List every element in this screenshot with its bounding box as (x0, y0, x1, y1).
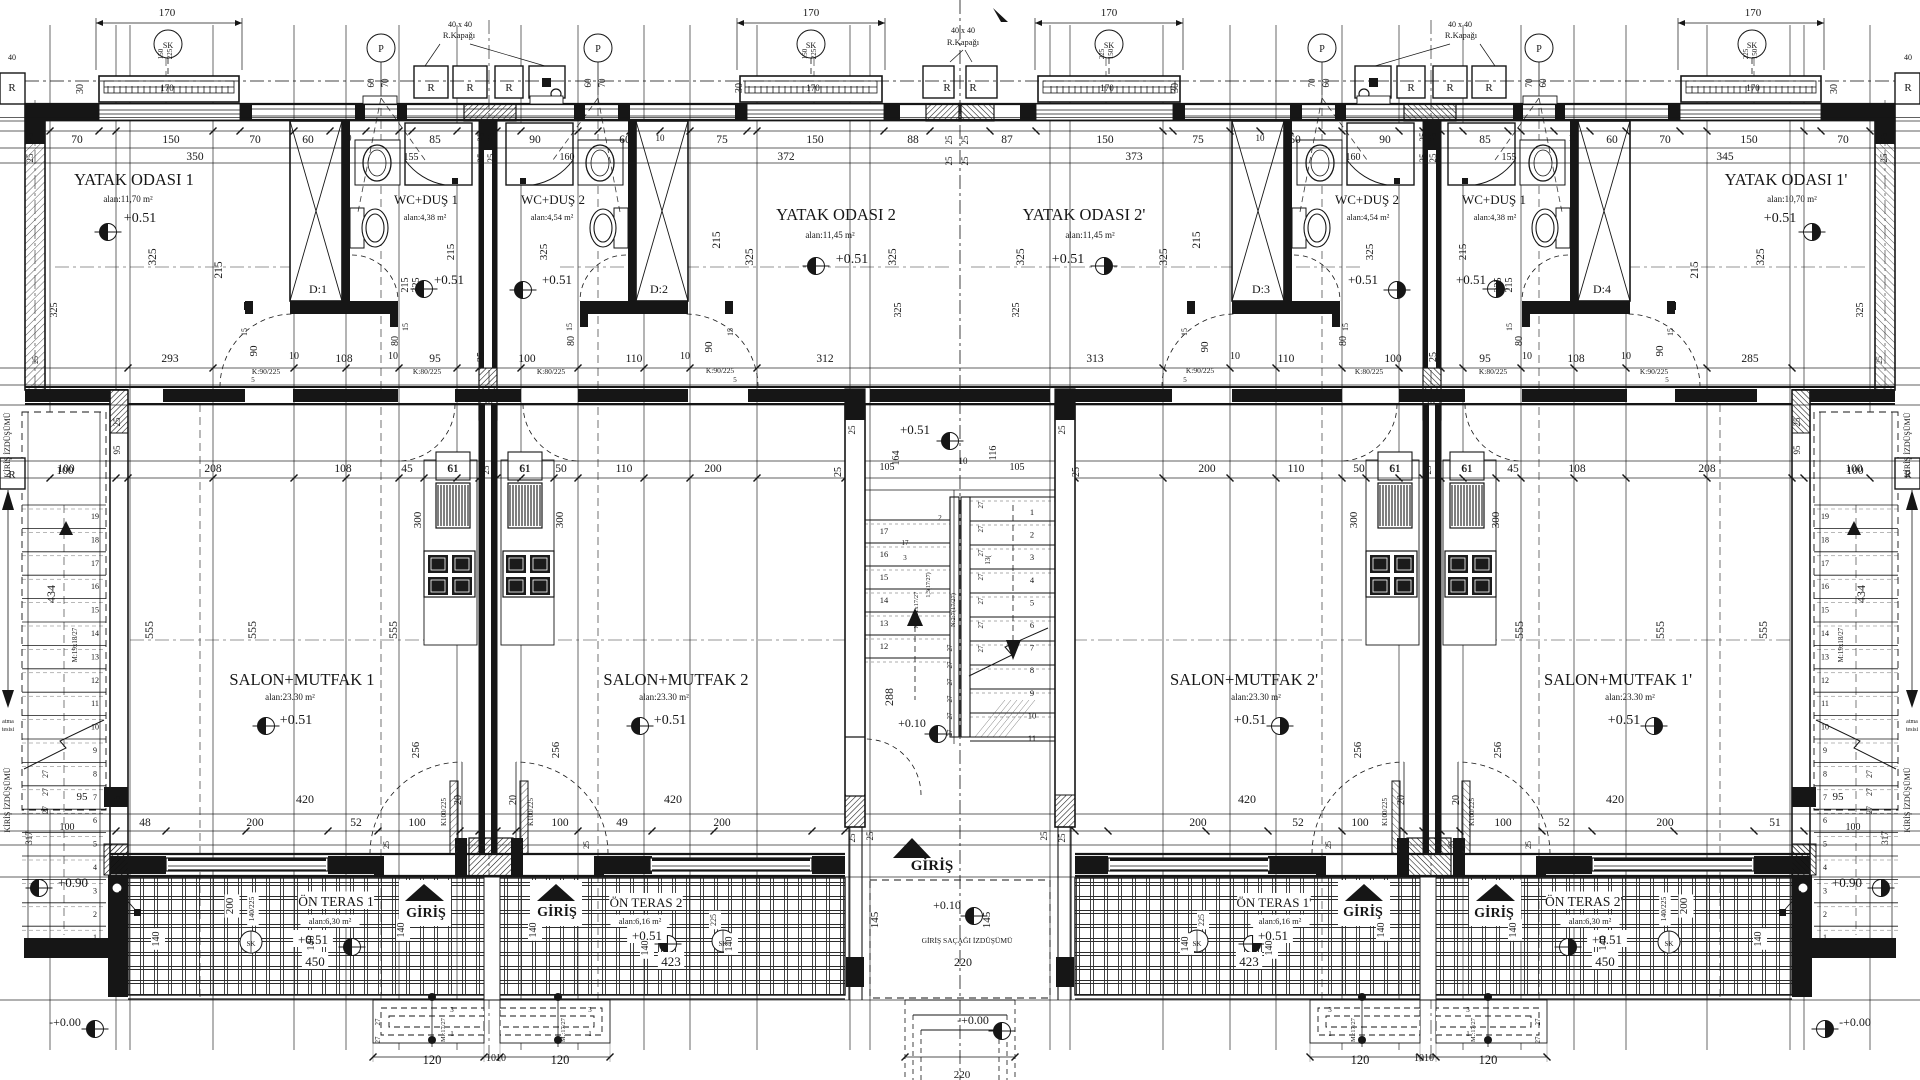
construction grid verticals (49, 25, 51, 1050)
svg-text:25: 25 (833, 467, 844, 477)
svg-text:155: 155 (404, 152, 419, 163)
svg-text:30: 30 (1170, 83, 1181, 93)
svg-text:108: 108 (334, 463, 352, 475)
svg-text:K100/225: K100/225 (1468, 798, 1476, 827)
svg-text:27: 27 (977, 645, 985, 653)
window sill (99, 76, 239, 102)
svg-text:25: 25 (31, 356, 40, 364)
svg-text:alan:23.30 m²: alan:23.30 m² (1605, 692, 1655, 702)
svg-text:alan:11,45 m²: alan:11,45 m² (805, 230, 855, 240)
svg-text:70: 70 (380, 78, 390, 88)
svg-text:60: 60 (583, 78, 593, 88)
svg-text:-+0.00: -+0.00 (1839, 1015, 1871, 1029)
svg-text:220: 220 (954, 955, 972, 969)
svg-text:12: 12 (880, 641, 889, 651)
svg-text:3: 3 (1328, 1006, 1332, 1014)
svg-text:100: 100 (1384, 353, 1402, 365)
svg-text:ÖN TERAS 1: ÖN TERAS 1 (298, 894, 374, 909)
svg-text:tesisi: tesisi (2, 727, 15, 733)
svg-text:19: 19 (1821, 512, 1829, 521)
P vent circle 2 (584, 34, 612, 62)
svg-text:16: 16 (880, 549, 889, 559)
level marker salon2 (627, 718, 654, 735)
svg-text:27: 27 (946, 661, 954, 669)
svg-text:155: 155 (1502, 152, 1517, 163)
svg-text:25: 25 (25, 132, 35, 142)
svg-text:9: 9 (93, 746, 97, 755)
svg-text:150: 150 (162, 134, 180, 146)
svg-text:YATAK ODASI 1: YATAK ODASI 1 (74, 170, 194, 189)
svg-text:256: 256 (1492, 741, 1504, 758)
svg-text:40 x 40: 40 x 40 (448, 20, 472, 29)
svg-text:317: 317 (1880, 831, 1890, 845)
svg-text:70: 70 (1837, 134, 1849, 146)
P vent circle 1 (367, 34, 395, 62)
svg-text:116: 116 (988, 446, 999, 461)
svg-text:60: 60 (302, 134, 314, 146)
svg-text:GİRİŞ: GİRİŞ (1343, 903, 1383, 920)
svg-text:27: 27 (1534, 1036, 1542, 1044)
svg-text:KİRİŞ İZDÜŞÜMÜ: KİRİŞ İZDÜŞÜMÜ (3, 767, 12, 832)
porch bottom dim (905, 1056, 1015, 1058)
level marker 000 left (82, 1021, 109, 1038)
svg-text:10: 10 (680, 351, 690, 362)
svg-text:61: 61 (520, 464, 530, 475)
svg-text:SK: SK (1665, 940, 1674, 948)
svg-text:225: 225 (1098, 48, 1106, 59)
svg-text:18: 18 (1821, 535, 1829, 544)
61 label boxes (436, 452, 470, 480)
svg-text:25: 25 (486, 132, 496, 142)
svg-text:25: 25 (1039, 831, 1049, 841)
svg-text:313: 313 (1086, 353, 1104, 365)
svg-text:110: 110 (616, 463, 633, 475)
svg-text:15: 15 (1505, 323, 1514, 331)
svg-text:GİRİŞ: GİRİŞ (406, 904, 446, 921)
stove unit2 (503, 551, 554, 597)
svg-text:140: 140 (1508, 923, 1519, 938)
svg-text:49: 49 (616, 817, 628, 829)
svg-text:6: 6 (1823, 816, 1827, 825)
WC door arcs (352, 255, 398, 301)
SK roof drain circle (797, 30, 825, 58)
svg-text:9: 9 (1030, 688, 1034, 698)
svg-text:27: 27 (1534, 1018, 1542, 1026)
svg-text:25: 25 (847, 425, 857, 435)
main wall bedroom/salon y390 (25, 386, 962, 388)
svg-text:K:90/225: K:90/225 (1186, 366, 1215, 375)
svg-text:27: 27 (977, 597, 985, 605)
svg-text:110: 110 (626, 353, 643, 365)
svg-text:300: 300 (1348, 511, 1360, 528)
svg-text:25: 25 (112, 795, 122, 805)
wardrobe unit2 (636, 121, 688, 301)
door arc D2 (685, 314, 758, 387)
svg-text:15: 15 (1180, 328, 1189, 336)
svg-text:60: 60 (1538, 78, 1548, 88)
svg-text:10: 10 (1028, 710, 1037, 720)
svg-text:alan:6,16 m²: alan:6,16 m² (619, 916, 662, 926)
porch steps (905, 999, 1015, 1001)
svg-text:17: 17 (902, 539, 910, 547)
svg-text:345: 345 (1716, 151, 1734, 163)
svg-text:95: 95 (1833, 791, 1845, 803)
svg-text:6: 6 (93, 816, 97, 825)
stair wall column at main wall (845, 389, 865, 420)
svg-text:61: 61 (1462, 464, 1472, 475)
door arc K80 unit1 (398, 404, 455, 461)
hidden dashed verticals (199, 404, 201, 1000)
svg-text:R: R (969, 82, 977, 94)
SK circle terrace unit2 (712, 930, 734, 952)
svg-text:25: 25 (1428, 132, 1438, 142)
svg-text:+0.90: +0.90 (1832, 875, 1862, 890)
svg-text:20: 20 (508, 795, 519, 805)
svg-text:225: 225 (709, 914, 718, 926)
svg-text:alan:11,45 m²: alan:11,45 m² (1065, 230, 1115, 240)
nook jamb unit1 (245, 301, 253, 314)
svg-text:215: 215 (445, 243, 457, 260)
svg-text:95: 95 (77, 791, 89, 803)
stair down arrow (1012, 505, 1014, 648)
svg-text:M:19x18/27: M:19x18/27 (1837, 627, 1845, 662)
svg-text:100: 100 (1846, 822, 1861, 833)
svg-text:atma: atma (1906, 719, 1918, 725)
svg-text:alan:4,38 m²: alan:4,38 m² (404, 212, 447, 222)
svg-text:1: 1 (588, 1030, 592, 1038)
svg-text:45: 45 (401, 463, 413, 475)
svg-text:215: 215 (1457, 243, 1469, 260)
svg-text:45: 45 (1507, 463, 1519, 475)
svg-text:10: 10 (1230, 351, 1240, 362)
svg-text:325: 325 (887, 248, 899, 266)
stove unit1 (424, 551, 475, 597)
svg-text:11: 11 (1821, 699, 1829, 708)
svg-text:85: 85 (1479, 134, 1491, 146)
WC wall unit2 (628, 121, 636, 301)
window inner lines (99, 109, 240, 111)
svg-text:30: 30 (1829, 84, 1840, 94)
svg-text:25: 25 (1324, 841, 1333, 849)
svg-text:108: 108 (1568, 463, 1586, 475)
svg-text:1,3(17/27): 1,3(17/27) (925, 572, 932, 597)
svg-text:8: 8 (1823, 769, 1827, 778)
svg-text:60: 60 (366, 78, 376, 88)
svg-text:215: 215 (400, 278, 411, 293)
svg-text:40: 40 (8, 53, 16, 62)
svg-text:100: 100 (1846, 465, 1864, 477)
svg-text:140: 140 (528, 923, 539, 938)
svg-text:27: 27 (977, 621, 985, 629)
svg-text:R.Kapağı: R.Kapağı (443, 30, 476, 40)
svg-text:61: 61 (1390, 464, 1400, 475)
svg-text:10: 10 (343, 133, 353, 143)
SK roof drain circle (154, 30, 182, 58)
small sill windows above band (363, 96, 397, 104)
svg-text:5: 5 (1823, 840, 1827, 849)
svg-text:225: 225 (1742, 48, 1750, 59)
svg-text:7: 7 (93, 793, 97, 802)
svg-text:170: 170 (1745, 7, 1762, 19)
svg-text:K:80/225: K:80/225 (413, 367, 442, 376)
svg-text:30: 30 (734, 83, 745, 93)
svg-text:SK: SK (1193, 940, 1202, 948)
nook jamb unit2 (725, 301, 733, 314)
salon door arcs (370, 762, 462, 854)
svg-text:14: 14 (91, 629, 99, 638)
steps dim line (373, 1056, 610, 1058)
svg-text:200: 200 (1656, 817, 1674, 829)
svg-text:61: 61 (448, 464, 458, 475)
svg-text:325: 325 (1493, 278, 1504, 293)
svg-text:555: 555 (1512, 621, 1526, 639)
svg-text:8: 8 (93, 769, 97, 778)
exterior stair treads (22, 504, 106, 506)
svg-text:1: 1 (450, 1030, 454, 1038)
level marker porch (961, 908, 988, 925)
svg-text:170: 170 (803, 7, 820, 19)
svg-text:170: 170 (1746, 83, 1760, 93)
nook wall unit2 (580, 301, 688, 314)
svg-text:25: 25 (1879, 153, 1889, 163)
svg-text:WC+DUŞ 1: WC+DUŞ 1 (394, 192, 458, 207)
svg-text:25: 25 (476, 153, 486, 163)
svg-text:alan:6,30 m²: alan:6,30 m² (1569, 916, 1612, 926)
svg-text:2: 2 (938, 514, 942, 522)
stair right flight treads (970, 496, 1055, 498)
svg-text:SALON+MUTFAK 1': SALON+MUTFAK 1' (1544, 670, 1692, 689)
left outer wall (25, 104, 45, 390)
svg-text:25: 25 (459, 841, 468, 849)
svg-text:300: 300 (554, 511, 566, 528)
svg-text:87: 87 (1001, 134, 1013, 146)
svg-text:200: 200 (224, 897, 236, 914)
svg-text:3: 3 (450, 1006, 454, 1014)
svg-text:15: 15 (1341, 323, 1350, 331)
svg-text:150: 150 (806, 134, 824, 146)
svg-text:140: 140 (1598, 936, 1609, 951)
svg-text:150: 150 (1107, 48, 1115, 59)
svg-text:105: 105 (880, 462, 895, 473)
svg-text:M.:17/27: M.:17/27 (440, 1017, 447, 1042)
svg-text:R.Kapağı: R.Kapağı (947, 37, 980, 47)
svg-text:25: 25 (112, 417, 122, 427)
svg-text:225: 225 (810, 48, 818, 59)
svg-text:15: 15 (880, 572, 889, 582)
svg-text:27: 27 (374, 1036, 382, 1044)
shower unit2 (506, 123, 573, 185)
mirrored right half geometry (958, 18, 1920, 1062)
svg-text:SK: SK (806, 41, 816, 50)
svg-text:555: 555 (245, 621, 259, 639)
svg-text:27: 27 (374, 1018, 382, 1026)
svg-text:2: 2 (93, 910, 97, 919)
svg-text:9: 9 (1823, 746, 1827, 755)
window dimension 170 (737, 22, 885, 24)
svg-text:256: 256 (1352, 741, 1364, 758)
svg-text:10: 10 (656, 133, 666, 143)
svg-text:40 x 40: 40 x 40 (951, 26, 975, 35)
svg-text:8: 8 (1030, 665, 1034, 675)
svg-text:D:1: D:1 (309, 282, 327, 296)
svg-text:5: 5 (1183, 376, 1187, 384)
center axis line (959, 0, 961, 1080)
svg-text:19: 19 (91, 512, 99, 521)
svg-text:20: 20 (1396, 795, 1407, 805)
svg-text:50: 50 (1353, 463, 1365, 475)
svg-text:160: 160 (560, 152, 575, 163)
salon window unit1 (166, 858, 328, 871)
svg-text:25: 25 (1418, 132, 1428, 142)
svg-text:25: 25 (847, 833, 857, 843)
svg-text:80: 80 (390, 336, 401, 346)
svg-text:325: 325 (1158, 248, 1170, 266)
door jambs terrace unit1 (374, 856, 384, 876)
vent leader dashes unit2 (553, 98, 598, 160)
svg-text:R: R (943, 82, 951, 94)
svg-text:70: 70 (1659, 134, 1671, 146)
svg-text:423: 423 (1239, 954, 1259, 969)
shower unit1 (405, 123, 472, 185)
svg-text:alan:11,70 m²: alan:11,70 m² (103, 194, 153, 204)
svg-text:KİRİŞ İZDÜŞÜMÜ: KİRİŞ İZDÜŞÜMÜ (3, 412, 12, 477)
door leaf unit1 (450, 781, 458, 854)
svg-text:27: 27 (977, 573, 985, 581)
porch wall black blocks (846, 957, 864, 987)
svg-text:140: 140 (1753, 932, 1764, 947)
svg-text:90: 90 (1199, 341, 1211, 353)
exterior stair bottom wall (24, 938, 108, 958)
svg-text:13: 13 (880, 618, 889, 628)
svg-text:K:80/225: K:80/225 (1479, 367, 1508, 376)
svg-text:M.:17/27: M.:17/27 (560, 1017, 567, 1042)
svg-text:M:19x18/27: M:19x18/27 (71, 627, 79, 662)
level marker salon1 (253, 718, 280, 735)
svg-text:25: 25 (1057, 833, 1067, 843)
svg-text:312: 312 (816, 353, 834, 365)
porch side walls (848, 827, 850, 1000)
svg-text:R: R (466, 82, 474, 94)
svg-text:25: 25 (1423, 465, 1433, 475)
svg-text:+0.51: +0.51 (124, 211, 156, 226)
svg-text:120: 120 (551, 1053, 570, 1067)
corner columns salon wall (104, 787, 128, 807)
svg-text:27: 27 (977, 525, 985, 533)
svg-text:1: 1 (1823, 933, 1827, 942)
exterior stair up arrow (59, 521, 73, 535)
ticks row139 (47, 128, 54, 135)
svg-text:555: 555 (1756, 621, 1770, 639)
svg-text:ÖN TERAS 2: ÖN TERAS 2 (610, 895, 683, 910)
svg-text:R: R (505, 82, 513, 94)
center roof flag mark (993, 8, 1008, 22)
svg-text:555: 555 (142, 621, 156, 639)
svg-text:25: 25 (476, 132, 486, 142)
svg-text:75: 75 (1192, 134, 1204, 146)
svg-text:256: 256 (550, 741, 562, 758)
svg-text:15: 15 (565, 323, 574, 331)
svg-text:+0.51: +0.51 (836, 252, 868, 267)
door jambs terrace unit2 (594, 856, 604, 876)
svg-text:208: 208 (204, 463, 222, 475)
svg-text:+0.51: +0.51 (1234, 713, 1266, 728)
vent leader dashes unit1 (381, 98, 425, 160)
svg-text:4: 4 (1823, 863, 1827, 872)
svg-text:140: 140 (306, 936, 317, 951)
leader lines to R boxes (425, 44, 440, 66)
svg-text:325: 325 (1855, 303, 1866, 318)
svg-text:+0.90: +0.90 (58, 875, 88, 890)
svg-text:+0.51: +0.51 (1052, 252, 1084, 267)
svg-text:YATAK ODASI 1': YATAK ODASI 1' (1725, 170, 1848, 189)
svg-text:100: 100 (408, 817, 426, 829)
party column hatch bottom (469, 838, 513, 876)
svg-text:YATAK ODASI 2': YATAK ODASI 2' (1023, 205, 1146, 224)
svg-text:90: 90 (248, 345, 260, 357)
exterior stair center dash (63, 505, 65, 935)
svg-text:alan:6,16 m²: alan:6,16 m² (1259, 916, 1302, 926)
svg-text:170: 170 (806, 83, 820, 93)
svg-text:13(: 13( (984, 555, 992, 565)
svg-text:555: 555 (386, 621, 400, 639)
nook wall unit1 (290, 301, 398, 314)
svg-text:1: 1 (1466, 1030, 1470, 1038)
svg-text:25: 25 (944, 135, 954, 145)
porch canopy dashed outline (870, 880, 1050, 998)
svg-text:95: 95 (112, 445, 122, 455)
svg-text:GİRİŞ SAÇAĞI İZDÜŞÜMÜ: GİRİŞ SAÇAĞI İZDÜŞÜMÜ (922, 935, 1013, 945)
svg-text:120: 120 (423, 1053, 442, 1067)
level marker wc2 (510, 282, 537, 299)
svg-text:alan:23.30 m²: alan:23.30 m² (265, 692, 315, 702)
svg-text:170: 170 (1100, 83, 1114, 93)
svg-text:200: 200 (713, 817, 731, 829)
svg-text:48: 48 (139, 817, 151, 829)
svg-text:40 x 40: 40 x 40 (1448, 20, 1472, 29)
svg-text:108: 108 (335, 353, 353, 365)
svg-text:200: 200 (704, 463, 722, 475)
svg-text:15: 15 (240, 328, 249, 336)
svg-text:25: 25 (1057, 425, 1067, 435)
svg-text:140: 140 (1180, 937, 1191, 952)
terrace front steps unit1 (373, 1000, 484, 1043)
terrace west wall black (108, 875, 128, 997)
svg-text:25: 25 (1792, 795, 1802, 805)
svg-text:27: 27 (946, 678, 954, 686)
washbasin unit1 (355, 140, 400, 185)
wardrobe unit1 (290, 121, 342, 301)
svg-text:10: 10 (1821, 723, 1829, 732)
svg-text:27: 27 (946, 644, 954, 652)
level marker bedroom2 (803, 258, 830, 275)
svg-text:325: 325 (147, 248, 159, 266)
svg-text:R: R (427, 82, 435, 94)
svg-text:D:4: D:4 (1593, 282, 1611, 296)
svg-text:alan:10,70 m²: alan:10,70 m² (1767, 194, 1817, 204)
kitchen counter unit2 (501, 460, 554, 645)
svg-text:140/225: 140/225 (1659, 896, 1668, 921)
svg-text:25: 25 (865, 831, 875, 841)
svg-text:105: 105 (1010, 462, 1025, 473)
drain dot and ring (542, 78, 551, 87)
svg-text:325: 325 (1011, 303, 1022, 318)
salon left outer wall (110, 390, 128, 877)
svg-text:108: 108 (1567, 353, 1585, 365)
svg-text:225: 225 (166, 48, 174, 59)
jamb dots (244, 302, 252, 310)
svg-text:170: 170 (1101, 7, 1118, 19)
svg-text:SK: SK (1747, 41, 1757, 50)
